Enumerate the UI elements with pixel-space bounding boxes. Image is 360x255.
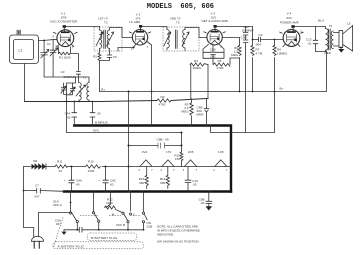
tube V1 osc/converter (50, 11, 78, 49)
resistor R3 (182, 102, 194, 115)
wire back-bias line (211, 92, 275, 133)
svg-text:4: 4 (53, 34, 55, 38)
svg-text:.05: .05 (66, 115, 71, 119)
switch arm 3 (112, 212, 129, 230)
svg-text:3: 3 (55, 45, 57, 49)
resistor R5 (213, 59, 230, 70)
T2 primary winding (96, 30, 103, 48)
svg-text:1: 1 (138, 168, 140, 172)
capacitor C3 (61, 70, 81, 79)
wire L1 to tuning node (39, 39, 45, 41)
switch arm 2 (92, 191, 99, 230)
wire R7 vertical (252, 27, 254, 92)
resistor R15 on AVC drop (180, 152, 183, 161)
wire T2 right winding bottom to C5 to B+ (100, 49, 110, 61)
heater 1T4 (160, 150, 175, 172)
wire switch row (87, 229, 144, 231)
svg-text:+: + (98, 178, 100, 182)
wire AVC takeoff vertical (67, 77, 76, 133)
wire C2 top/bottom (52, 40, 54, 77)
wire C1 bottom down and osc grid line (44, 55, 89, 83)
wire C3 to T1 (77, 75, 79, 83)
svg-text:C9: C9 (259, 33, 263, 37)
resistor R7 (251, 46, 263, 56)
wire grid-return drops R3 C4B (191, 99, 193, 126)
heater 3V4 (138, 150, 153, 172)
capacitor C1 (tuning, variable) (41, 42, 51, 58)
B-minus heavy bus (74, 126, 231, 192)
wire L1 bottom down (24, 64, 26, 102)
svg-text:M: M (112, 212, 115, 216)
svg-text:7: 7 (196, 168, 198, 172)
capacitor C8C electrolytic (98, 178, 117, 186)
svg-text:POWER AMP.: POWER AMP. (280, 21, 299, 25)
note text (157, 224, 200, 243)
svg-text:AVC: AVC (93, 129, 100, 133)
svg-text:R5: R5 (218, 59, 222, 63)
resistor R2 under T2 (93, 53, 101, 61)
antenna terminal on loop (17, 30, 20, 35)
svg-text:R9: R9 (161, 95, 165, 99)
svg-text:3300: 3300 (106, 201, 113, 205)
svg-text:C1: C1 (47, 42, 51, 46)
gang dashed lines (54, 216, 64, 247)
svg-text:C6D: C6D (241, 35, 248, 39)
T2 core (104, 30, 106, 49)
IF transformer T3 dashed box (163, 17, 199, 52)
wire V2 plate line to T3 (141, 27, 167, 30)
wire V2 right pin down to B+ (147, 42, 152, 126)
T3 primary winding (164, 30, 171, 51)
svg-text:C5: C5 (113, 55, 117, 59)
AC plug (31, 236, 43, 248)
svg-text:1: 1 (160, 168, 162, 172)
capacitor C4C (90, 111, 101, 117)
svg-text:C7: C7 (35, 183, 39, 187)
capacitor C8B-40 (157, 138, 169, 149)
capacitor C10 (185, 167, 198, 192)
wire T2 to V2 grid (122, 37, 133, 39)
svg-text:.01: .01 (307, 41, 312, 45)
svg-text:BLU: BLU (318, 19, 324, 23)
wire coupling cap to V4 grid (253, 39, 284, 41)
capacitor C9B to ground (199, 190, 213, 210)
resistor R8 (273, 46, 288, 56)
svg-text:RED: RED (325, 51, 332, 55)
wire R6 vertical (239, 38, 241, 92)
svg-text:R4: R4 (194, 59, 198, 63)
svg-text:80: 80 (110, 182, 114, 186)
svg-text:MMF: MMF (197, 113, 204, 117)
svg-text:7: 7 (151, 168, 153, 172)
svg-text:R2: R2 (93, 55, 97, 59)
svg-text:470K: 470K (217, 66, 224, 70)
switch S1A drop wire (70, 192, 72, 213)
detector wiring box under V3 (203, 44, 224, 58)
svg-text:OFF A: OFF A (53, 203, 63, 207)
svg-text:R1 100K: R1 100K (59, 56, 71, 60)
svg-text:B MINUS: B MINUS (95, 121, 108, 125)
svg-text:OSC./CONVERTER: OSC./CONVERTER (50, 20, 78, 24)
T3 core (176, 30, 178, 49)
B battery plug dashed box (88, 233, 137, 241)
svg-text:MEG: MEG (231, 53, 239, 57)
svg-text:1R5: 1R5 (188, 150, 194, 154)
svg-text:L1: L1 (19, 49, 23, 53)
wire C8A drop (71, 167, 73, 192)
svg-text:T2: T2 (104, 21, 108, 25)
wire T4 primary bottom RED down to B+ (326, 50, 328, 51)
wire V3 filament to C6A (212, 45, 214, 65)
wire T2 left winding bottom to R2 (99, 49, 101, 92)
resistor R1 (59, 52, 71, 59)
wire C8B drop (105, 167, 107, 192)
A battery plug dashed box (53, 242, 144, 249)
IF transformer T2 dashed box (94, 17, 122, 52)
svg-text:.004: .004 (255, 43, 261, 47)
svg-text:1T4: 1T4 (166, 150, 172, 154)
wire C8B-40 line (129, 145, 182, 147)
capacitor C13 (306, 38, 318, 46)
T2 secondary winding (107, 28, 123, 49)
wire node to V1 grid (44, 39, 57, 40)
volume control R4 (190, 59, 208, 99)
resistor R11 (55, 160, 67, 173)
C4B detector cap with arrow (197, 106, 209, 117)
resistor R14 (160, 167, 170, 189)
wire long vertical V2 to chassis bus (128, 92, 130, 192)
grid return line (L1 bottom to detector) (25, 99, 209, 102)
svg-text:.002: .002 (210, 55, 216, 59)
svg-text:DET & AUDIO AMP.: DET & AUDIO AMP. (202, 19, 229, 23)
loop antenna L1 (10, 35, 39, 64)
wire T1 bottoms to grid-return line (79, 100, 89, 101)
svg-text:T1: T1 (83, 76, 87, 80)
AVC line (67, 132, 182, 134)
capacitor C5 under T2 (107, 55, 117, 59)
B+ line (100, 51, 327, 92)
svg-text:10MEG: 10MEG (277, 51, 288, 55)
svg-text:'B' BATTERY PLUG: 'B' BATTERY PLUG (91, 236, 119, 240)
svg-text:OFF B: OFF B (116, 223, 125, 227)
svg-text:5: 5 (301, 30, 303, 34)
capacitor C4A (65, 111, 77, 119)
trimmer caps by T1 (61, 83, 75, 95)
svg-text:680: 680 (139, 181, 144, 185)
svg-text:L5: L5 (347, 21, 351, 25)
svg-text:C6A: C6A (210, 47, 217, 51)
chassis heavy bus (64, 190, 231, 192)
T3 secondary winding (182, 28, 199, 51)
svg-text:+: + (64, 178, 66, 182)
svg-text:T4: T4 (329, 24, 333, 28)
svg-text:.04: .04 (200, 201, 205, 205)
svg-text:R11: R11 (57, 160, 63, 164)
svg-text:7: 7 (226, 168, 228, 172)
switch S1B contacts (142, 191, 152, 230)
wire V3 plate line right (215, 26, 253, 28)
svg-text:MEG: MEG (182, 110, 190, 114)
svg-text:560MMF: 560MMF (63, 75, 75, 79)
coupling capacitor C9 (255, 33, 263, 46)
wire C13 branch (316, 27, 327, 52)
wire R8 vertical (274, 40, 276, 92)
capacitor C6A (210, 47, 217, 58)
svg-text:T3: T3 (176, 21, 180, 25)
osc coil T1 (76, 76, 89, 101)
wire V2 filament lead to long vertical (118, 45, 136, 51)
svg-text:C8B - 40: C8B - 40 (157, 138, 169, 142)
svg-text:3V4: 3V4 (286, 16, 292, 20)
wire left AC leg (24, 167, 34, 237)
svg-text:.05: .05 (192, 182, 197, 186)
switch arm 1 (69, 212, 78, 223)
ground (speaker) (338, 47, 344, 53)
svg-text:100MMF: 100MMF (242, 28, 254, 32)
svg-text:.047: .047 (34, 194, 40, 198)
capacitor C7 (34, 183, 41, 198)
selenium rectifier SR (32, 159, 47, 169)
svg-text:SW SHOWN IN AC POSITION: SW SHOWN IN AC POSITION (157, 240, 199, 244)
svg-text:1MEG: 1MEG (193, 66, 202, 70)
svg-text:1000: 1000 (88, 169, 95, 173)
switch S1A label (53, 199, 63, 207)
svg-text:4700: 4700 (159, 103, 166, 107)
wire C4C vertical (92, 102, 94, 126)
resistor R9 (157, 95, 171, 107)
wire AVC end down through R15 to heater line (181, 133, 183, 167)
wire decoupling caps vertical (245, 27, 247, 133)
svg-text:'A' BATTERY PLUG: 'A' BATTERY PLUG (57, 244, 85, 248)
svg-text:680: 680 (160, 181, 165, 185)
svg-text:B+: B+ (101, 87, 105, 91)
output transformer T4 (326, 24, 334, 50)
svg-text:.05: .05 (97, 111, 102, 115)
tube V4 power amp (280, 12, 304, 47)
svg-text:33: 33 (59, 169, 63, 173)
svg-text:R10: R10 (88, 160, 94, 164)
capacitor C9A with ground (55, 219, 87, 235)
svg-text:1: 1 (131, 47, 133, 51)
svg-text:I.F. AMP.: I.F. AMP. (129, 20, 141, 24)
svg-text:INDICATED.: INDICATED. (157, 232, 174, 236)
resistor R6 (231, 46, 241, 58)
wire V4 plate to T4 (293, 27, 326, 29)
capacitors C12/C11 on plate feed (241, 25, 254, 43)
wire V1 cathode pins to R1 (59, 47, 79, 71)
heater filament line (129, 166, 232, 168)
wire detector node to C4B top (207, 65, 209, 99)
svg-text:B+: B+ (280, 87, 284, 91)
svg-text:40: 40 (76, 182, 80, 186)
svg-text:1: 1 (213, 168, 215, 172)
wire C7 line (24, 190, 65, 193)
switch contacts C (130, 191, 137, 217)
heater 1U5 (213, 150, 228, 172)
svg-text:V 4: V 4 (287, 12, 292, 16)
wire AC plug right prong up and over (39, 213, 71, 237)
wire R5 right to R6 bottom (230, 58, 240, 65)
svg-text:7: 7 (173, 168, 175, 172)
node T1 left junction (78, 101, 80, 103)
svg-text:7: 7 (147, 45, 149, 49)
svg-text:1U5: 1U5 (218, 150, 224, 154)
speaker L5 (333, 21, 352, 51)
svg-text:S1B: S1B (147, 225, 153, 229)
wire C4A vertical (73, 102, 75, 126)
capacitor C2 (osc tuning, variable) (50, 48, 58, 56)
tube V2 IF amp (129, 12, 151, 51)
capacitor C8A electrolytic (64, 178, 83, 186)
tube V3 det/audio (202, 11, 229, 48)
svg-text:3V4: 3V4 (142, 150, 148, 154)
svg-text:4.7M: 4.7M (256, 51, 263, 55)
resistor R13 (139, 167, 149, 189)
resistor R10 (86, 160, 101, 173)
svg-text:MODELS 605, 606: MODELS 605, 606 (147, 3, 214, 11)
svg-text:1: 1 (183, 168, 185, 172)
node A (43, 40, 45, 42)
wire node down to C1 (43, 40, 45, 52)
svg-text:C3: C3 (61, 70, 65, 74)
heater 1R5 (183, 150, 198, 172)
svg-text:7: 7 (72, 46, 74, 50)
wire V1 plate line to T2 (64, 27, 99, 31)
svg-text:150: 150 (175, 157, 180, 161)
rectifier line (24, 166, 129, 168)
wire T3 to V3 grid (199, 37, 207, 39)
resistor R12 (105, 191, 123, 213)
